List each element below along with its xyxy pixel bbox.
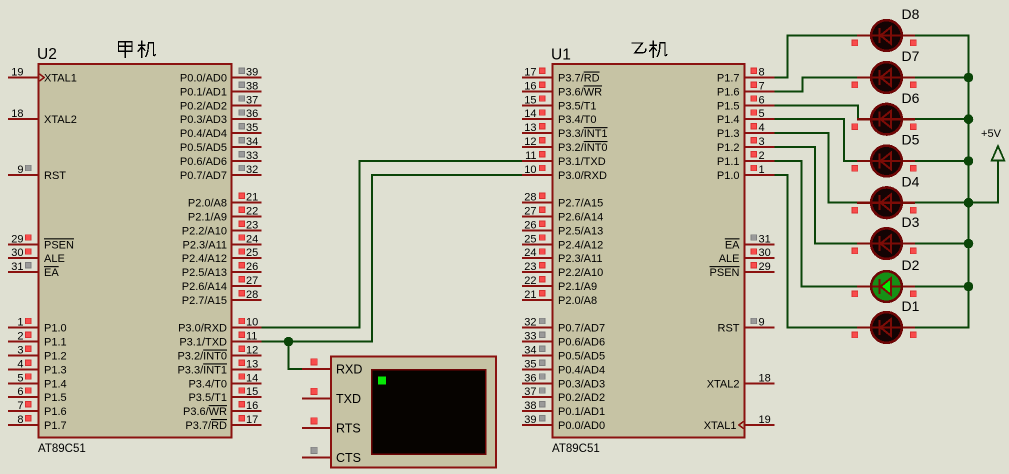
pin 11 (P3.1/TXD) of U1, left side: [522, 150, 606, 168]
svg-text:P0.2/AD2: P0.2/AD2: [558, 392, 605, 404]
svg-text:D4: D4: [902, 173, 920, 189]
wire U2.P3.1/TXD to U1.P3.0/RXD: [262, 175, 523, 342]
svg-text:P2.5/A13: P2.5/A13: [182, 267, 227, 279]
svg-text:P3.6/WR: P3.6/WR: [183, 406, 227, 418]
svg-text:P3.4/T0: P3.4/T0: [558, 114, 597, 126]
svg-text:27: 27: [524, 206, 536, 218]
pin 9 (RST) of U1, right side: [718, 317, 775, 335]
pin 24 (P2.3/A11) of U1, left side: [522, 247, 602, 265]
pin 15 (P3.5/T1) of U2, right side: [188, 386, 261, 404]
LED D2: [852, 271, 916, 302]
svg-text:P0.4/AD4: P0.4/AD4: [558, 364, 605, 376]
svg-text:14: 14: [524, 108, 536, 120]
IC U1 body (AT89C51 乙机): [553, 64, 745, 438]
pin 37 (P0.2/AD2) of U1, left side: [522, 386, 605, 404]
svg-text:9: 9: [17, 164, 23, 176]
svg-text:32: 32: [246, 164, 258, 176]
svg-text:13: 13: [246, 358, 258, 370]
terminal pin RTS: [302, 418, 361, 436]
chip U2 title 甲机: [119, 41, 156, 57]
pin 26 (P2.5/A13) of U2, right side: [182, 261, 262, 279]
pin 22 (P2.1/A9) of U2, right side: [188, 206, 262, 224]
svg-text:P2.5/A13: P2.5/A13: [558, 225, 603, 237]
pin 18 (XTAL2) of U2, left side: [8, 108, 77, 126]
svg-text:39: 39: [524, 414, 536, 426]
pin 10 (P3.0/RXD) of U2, right side: [178, 317, 261, 335]
pin 1 (P1.0) of U2, left side: [8, 317, 67, 335]
pin 25 (P2.4/A12) of U1, left side: [522, 233, 603, 251]
svg-text:D5: D5: [902, 132, 920, 148]
pin 8 (P1.7) of U2, left side: [8, 414, 67, 432]
svg-text:18: 18: [759, 372, 771, 384]
svg-text:P1.1: P1.1: [717, 156, 740, 168]
terminal pin CTS: [302, 447, 361, 465]
pin 5 (P1.4) of U1, right side: [717, 108, 775, 126]
pin 36 (P0.3/AD3) of U2, right side: [180, 108, 262, 126]
svg-text:P2.4/A12: P2.4/A12: [182, 253, 227, 265]
LED D6: [852, 104, 916, 135]
pin 37 (P0.2/AD2) of U2, right side: [180, 94, 262, 112]
svg-text:P3.5/T1: P3.5/T1: [188, 392, 227, 404]
svg-text:P0.5/AD5: P0.5/AD5: [180, 142, 227, 154]
svg-text:24: 24: [524, 247, 536, 259]
svg-text:P2.7/A15: P2.7/A15: [182, 295, 227, 307]
pin 11 (P3.1/TXD) of U2, right side: [179, 331, 261, 349]
svg-text:35: 35: [524, 358, 536, 370]
svg-text:P2.6/A14: P2.6/A14: [558, 212, 603, 224]
junction node on bus at D3: [964, 239, 974, 249]
svg-text:30: 30: [11, 247, 23, 259]
svg-text:10: 10: [246, 317, 258, 329]
svg-text:P2.6/A14: P2.6/A14: [182, 281, 227, 293]
svg-text:D2: D2: [902, 257, 920, 273]
svg-text:P0.5/AD5: P0.5/AD5: [558, 351, 605, 363]
svg-text:P3.5/T1: P3.5/T1: [558, 100, 597, 112]
wire U1.P1.2 to LED D3: [775, 147, 859, 244]
LED D8: [852, 20, 916, 51]
junction node on bus at D4: [964, 198, 974, 208]
wire U1.P1.4 to LED D5: [775, 119, 859, 161]
svg-text:29: 29: [759, 261, 771, 273]
svg-text:P2.7/A15: P2.7/A15: [558, 198, 603, 210]
svg-text:P0.4/AD4: P0.4/AD4: [180, 128, 227, 140]
pin 32 (P0.7/AD7) of U1, left side: [522, 317, 605, 335]
svg-text:34: 34: [524, 345, 536, 357]
svg-text:P3.1/TXD: P3.1/TXD: [179, 337, 227, 349]
wire LED D3 cathode to bus: [914, 243, 969, 245]
pin 18 (XTAL2) of U1, right side: [707, 372, 775, 390]
svg-text:P1.2: P1.2: [44, 351, 67, 363]
svg-text:13: 13: [524, 122, 536, 134]
pin 23 (P2.2/A10) of U1, left side: [522, 261, 603, 279]
svg-text:PSEN: PSEN: [710, 267, 740, 279]
IC U2 body (AT89C51 甲机): [39, 64, 232, 438]
wire LED D6 cathode to bus: [914, 118, 969, 120]
svg-text:4: 4: [17, 358, 23, 370]
svg-text:28: 28: [246, 289, 258, 301]
pin 6 (P1.5) of U1, right side: [717, 94, 775, 112]
svg-text:RST: RST: [44, 170, 66, 182]
svg-text:P1.4: P1.4: [717, 114, 740, 126]
svg-text:29: 29: [11, 233, 23, 245]
svg-text:2: 2: [17, 331, 23, 343]
svg-text:8: 8: [17, 414, 23, 426]
svg-text:P3.0/RXD: P3.0/RXD: [558, 170, 607, 182]
svg-text:U1: U1: [551, 47, 571, 64]
pin 24 (P2.3/A11) of U2, right side: [183, 233, 262, 251]
pin 7 (P1.6) of U2, left side: [8, 400, 67, 418]
svg-text:P3.7/RD: P3.7/RD: [558, 73, 600, 85]
svg-text:D1: D1: [902, 298, 920, 314]
wire branch to terminal RXD: [289, 342, 303, 369]
pin 31 (EA) of U1, right side: [725, 233, 775, 251]
svg-text:25: 25: [246, 247, 258, 259]
svg-text:D3: D3: [902, 214, 920, 230]
wire +5V supply bus (LED cathodes): [914, 36, 969, 328]
pin 22 (P2.1/A9) of U1, left side: [522, 275, 597, 293]
pin 14 (P3.4/T0) of U2, right side: [188, 372, 261, 390]
pin 4 (P1.3) of U2, left side: [8, 358, 67, 376]
LED D1: [852, 312, 916, 343]
svg-text:P0.0/AD0: P0.0/AD0: [180, 73, 227, 85]
svg-text:P0.6/AD6: P0.6/AD6: [180, 156, 227, 168]
svg-text:P2.1/A9: P2.1/A9: [188, 212, 227, 224]
wire +5V branch: [969, 162, 999, 203]
svg-text:3: 3: [759, 136, 765, 148]
pin 6 (P1.5) of U2, left side: [8, 386, 67, 404]
svg-text:17: 17: [524, 67, 536, 79]
svg-text:P1.3: P1.3: [717, 128, 740, 140]
svg-text:XTAL1: XTAL1: [704, 420, 737, 432]
svg-text:15: 15: [524, 94, 536, 106]
LED D3: [852, 228, 916, 259]
svg-text:5: 5: [759, 108, 765, 120]
pin 8 (P1.7) of U1, right side: [717, 67, 775, 85]
svg-text:31: 31: [759, 233, 771, 245]
svg-text:P0.0/AD0: P0.0/AD0: [558, 420, 605, 432]
wire U1.P1.7 to LED D8: [775, 36, 859, 78]
pin 2 (P1.1) of U1, right side: [717, 150, 775, 168]
pin 14 (P3.4/T0) of U1, left side: [522, 108, 597, 126]
pin 4 (P1.3) of U1, right side: [717, 122, 775, 140]
svg-text:P1.6: P1.6: [44, 406, 67, 418]
pin 16 (P3.6/WR) of U1, left side: [522, 80, 602, 98]
LED D7: [852, 62, 916, 93]
svg-text:CTS: CTS: [336, 451, 361, 465]
svg-text:RXD: RXD: [336, 363, 362, 377]
LED D5: [852, 146, 916, 177]
svg-text:16: 16: [524, 80, 536, 92]
pin 38 (P0.1/AD1) of U2, right side: [180, 80, 262, 98]
svg-text:P0.3/AD3: P0.3/AD3: [558, 378, 605, 390]
pin 1 (P1.0) of U1, right side: [717, 164, 775, 182]
pin 2 (P1.1) of U2, left side: [8, 331, 67, 349]
svg-text:EA: EA: [725, 239, 740, 251]
pin 15 (P3.5/T1) of U1, left side: [522, 94, 597, 112]
svg-text:30: 30: [759, 247, 771, 259]
junction node on bus at D5: [964, 156, 974, 166]
virtual terminal cursor: [378, 377, 386, 385]
svg-text:P1.0: P1.0: [717, 170, 740, 182]
svg-text:P3.4/T0: P3.4/T0: [188, 378, 227, 390]
wire LED D7 cathode to bus: [914, 77, 969, 79]
svg-text:6: 6: [759, 94, 765, 106]
svg-text:AT89C51: AT89C51: [552, 443, 600, 455]
svg-text:P3.3/INT1: P3.3/INT1: [558, 128, 608, 140]
svg-text:33: 33: [524, 331, 536, 343]
wire U1.P1.5 to LED D6: [775, 105, 859, 119]
svg-text:P3.2/INT0: P3.2/INT0: [558, 142, 608, 154]
svg-text:P2.1/A9: P2.1/A9: [558, 281, 597, 293]
svg-text:P1.5: P1.5: [44, 392, 67, 404]
svg-text:P3.1/TXD: P3.1/TXD: [558, 156, 606, 168]
svg-text:P1.7: P1.7: [44, 420, 67, 432]
svg-text:15: 15: [246, 386, 258, 398]
svg-text:31: 31: [11, 261, 23, 273]
pin 30 (ALE) of U1, right side: [719, 247, 775, 265]
svg-text:+5V: +5V: [981, 128, 1002, 140]
pin 12 (P3.2/INT0) of U2, right side: [177, 345, 261, 363]
pin 17 (P3.7/RD) of U2, right side: [185, 414, 261, 432]
svg-text:11: 11: [525, 150, 536, 162]
pin 19 (XTAL1) of U2, left side: [8, 67, 77, 85]
svg-text:P0.7/AD7: P0.7/AD7: [558, 323, 605, 335]
svg-text:P1.4: P1.4: [44, 378, 67, 390]
virtual terminal body: [331, 357, 496, 468]
svg-text:P1.3: P1.3: [44, 364, 67, 376]
svg-text:P2.3/A11: P2.3/A11: [558, 253, 602, 265]
svg-text:D8: D8: [902, 6, 920, 22]
svg-text:1: 1: [759, 164, 765, 176]
svg-text:RTS: RTS: [336, 422, 361, 436]
pin 13 (P3.3/INT1) of U1, left side: [522, 122, 608, 140]
svg-text:XTAL2: XTAL2: [44, 114, 77, 126]
svg-text:5: 5: [17, 372, 23, 384]
pin 35 (P0.4/AD4) of U1, left side: [522, 358, 605, 376]
pin 32 (P0.7/AD7) of U2, right side: [180, 164, 262, 182]
svg-text:2: 2: [759, 150, 765, 162]
pin 30 (ALE) of U2, left side: [8, 247, 65, 265]
pin 21 (P2.0/A8) of U2, right side: [188, 192, 262, 210]
svg-text:D6: D6: [902, 90, 920, 106]
svg-text:4: 4: [759, 122, 765, 134]
svg-text:27: 27: [246, 275, 258, 287]
svg-text:P0.1/AD1: P0.1/AD1: [180, 86, 227, 98]
svg-text:16: 16: [246, 400, 258, 412]
pin 35 (P0.4/AD4) of U2, right side: [180, 122, 262, 140]
pin 39 (P0.0/AD0) of U1, left side: [522, 414, 605, 432]
pin 38 (P0.1/AD1) of U1, left side: [522, 400, 605, 418]
junction node on bus at D6: [964, 114, 974, 124]
svg-text:10: 10: [524, 164, 536, 176]
pin 17 (P3.7/RD) of U1, left side: [522, 67, 600, 85]
svg-text:26: 26: [246, 261, 258, 273]
svg-text:P1.0: P1.0: [44, 323, 67, 335]
pin 31 (EA) of U2, left side: [8, 261, 59, 279]
svg-text:EA: EA: [44, 267, 59, 279]
svg-text:34: 34: [246, 136, 258, 148]
svg-text:P3.2/INT0: P3.2/INT0: [177, 351, 227, 363]
pin 19 (XTAL1) of U1, right side: [704, 414, 775, 432]
svg-text:26: 26: [524, 219, 536, 231]
pin 21 (P2.0/A8) of U1, left side: [522, 289, 597, 307]
pin 26 (P2.5/A13) of U1, left side: [522, 219, 603, 237]
svg-text:21: 21: [246, 192, 258, 204]
pin 3 (P1.2) of U2, left side: [8, 345, 67, 363]
pin 39 (P0.0/AD0) of U2, right side: [180, 67, 262, 85]
svg-text:AT89C51: AT89C51: [38, 443, 86, 455]
wire U1.P1.1 to LED D2: [775, 161, 859, 287]
svg-text:P2.2/A10: P2.2/A10: [182, 225, 227, 237]
pin 25 (P2.4/A12) of U2, right side: [182, 247, 262, 265]
svg-text:PSEN: PSEN: [44, 239, 74, 251]
svg-text:P0.3/AD3: P0.3/AD3: [180, 114, 227, 126]
svg-text:P1.7: P1.7: [717, 73, 740, 85]
svg-text:XTAL1: XTAL1: [44, 73, 77, 85]
pin 9 (RST) of U2, left side: [8, 164, 66, 182]
svg-text:D7: D7: [902, 48, 920, 64]
pin 23 (P2.2/A10) of U2, right side: [182, 219, 262, 237]
svg-text:P3.3/INT1: P3.3/INT1: [177, 364, 227, 376]
svg-text:9: 9: [759, 317, 765, 329]
pin 3 (P1.2) of U1, right side: [717, 136, 775, 154]
pin 13 (P3.3/INT1) of U2, right side: [177, 358, 261, 376]
pin 36 (P0.3/AD3) of U1, left side: [522, 372, 605, 390]
svg-text:P2.0/A8: P2.0/A8: [558, 295, 597, 307]
pin 27 (P2.6/A14) of U2, right side: [182, 275, 262, 293]
svg-text:8: 8: [759, 67, 765, 79]
svg-text:P1.5: P1.5: [717, 100, 740, 112]
junction node on bus at D7: [964, 73, 974, 83]
LED D4: [852, 187, 916, 218]
svg-text:P1.2: P1.2: [717, 142, 740, 154]
svg-text:19: 19: [759, 414, 771, 426]
terminal pin RXD: [302, 359, 362, 377]
svg-text:21: 21: [524, 289, 536, 301]
pin 33 (P0.6/AD6) of U2, right side: [180, 150, 262, 168]
svg-text:P0.7/AD7: P0.7/AD7: [180, 170, 227, 182]
svg-text:17: 17: [246, 414, 258, 426]
svg-text:12: 12: [246, 345, 258, 357]
svg-text:TXD: TXD: [336, 392, 361, 406]
wire LED D2 cathode to bus: [914, 286, 969, 288]
svg-text:P1.1: P1.1: [44, 337, 67, 349]
svg-text:37: 37: [246, 94, 258, 106]
pin 7 (P1.6) of U1, right side: [717, 80, 775, 98]
svg-text:32: 32: [524, 317, 536, 329]
chip U1 title 乙机: [632, 41, 667, 57]
svg-text:3: 3: [17, 345, 23, 357]
pin 10 (P3.0/RXD) of U1, left side: [522, 164, 607, 182]
svg-text:P3.0/RXD: P3.0/RXD: [178, 323, 227, 335]
svg-text:28: 28: [524, 192, 536, 204]
svg-text:XTAL2: XTAL2: [707, 378, 740, 390]
svg-text:6: 6: [17, 386, 23, 398]
svg-text:35: 35: [246, 122, 258, 134]
wire LED D5 cathode to bus: [914, 160, 969, 162]
pin 5 (P1.4) of U2, left side: [8, 372, 67, 390]
svg-text:33: 33: [246, 150, 258, 162]
virtual terminal screen: [372, 370, 486, 455]
svg-text:37: 37: [524, 386, 536, 398]
pin 12 (P3.2/INT0) of U1, left side: [522, 136, 608, 154]
wire U1.P1.3 to LED D4: [775, 133, 859, 203]
svg-text:38: 38: [524, 400, 536, 412]
svg-text:P2.3/A11: P2.3/A11: [183, 239, 227, 251]
wire U1.P1.0 to LED D1: [775, 175, 859, 328]
junction node on bus at D2: [964, 282, 974, 292]
svg-text:P2.2/A10: P2.2/A10: [558, 267, 603, 279]
svg-text:12: 12: [524, 136, 536, 148]
svg-text:ALE: ALE: [719, 253, 740, 265]
svg-text:22: 22: [246, 206, 258, 218]
svg-text:23: 23: [524, 261, 536, 273]
svg-text:P2.0/A8: P2.0/A8: [188, 198, 227, 210]
svg-text:38: 38: [246, 80, 258, 92]
terminal pin TXD: [302, 388, 361, 406]
pin 16 (P3.6/WR) of U2, right side: [183, 400, 262, 418]
svg-text:25: 25: [524, 233, 536, 245]
pin 34 (P0.5/AD5) of U2, right side: [180, 136, 262, 154]
svg-text:18: 18: [11, 108, 23, 120]
power terminal +5V arrow: [992, 146, 1005, 161]
pin 28 (P2.7/A15) of U2, right side: [182, 289, 262, 307]
svg-text:ALE: ALE: [44, 253, 65, 265]
svg-text:23: 23: [246, 219, 258, 231]
svg-text:U2: U2: [37, 46, 57, 63]
svg-text:36: 36: [246, 108, 258, 120]
wire U2.P3.0/RXD to U1.P3.1/TXD: [262, 161, 523, 328]
svg-text:24: 24: [246, 233, 258, 245]
svg-text:14: 14: [246, 372, 258, 384]
svg-text:1: 1: [17, 317, 23, 329]
svg-text:36: 36: [524, 372, 536, 384]
pin 28 (P2.7/A15) of U1, left side: [522, 192, 603, 210]
svg-text:P0.2/AD2: P0.2/AD2: [180, 100, 227, 112]
svg-text:39: 39: [246, 67, 258, 79]
svg-text:P3.7/RD: P3.7/RD: [185, 420, 227, 432]
pin 27 (P2.6/A14) of U1, left side: [522, 206, 603, 224]
svg-text:11: 11: [246, 331, 257, 343]
svg-text:P1.6: P1.6: [717, 86, 740, 98]
svg-text:7: 7: [17, 400, 23, 412]
svg-text:P0.1/AD1: P0.1/AD1: [558, 406, 605, 418]
svg-text:P3.6/WR: P3.6/WR: [558, 86, 602, 98]
svg-text:19: 19: [11, 67, 23, 79]
pin 29 (PSEN) of U2, left side: [8, 233, 74, 251]
junction node at TXD branch: [284, 337, 294, 347]
svg-text:RST: RST: [718, 323, 740, 335]
pin 34 (P0.5/AD5) of U1, left side: [522, 345, 605, 363]
svg-text:P0.6/AD6: P0.6/AD6: [558, 337, 605, 349]
pin 33 (P0.6/AD6) of U1, left side: [522, 331, 605, 349]
wire LED D4 cathode to bus: [914, 202, 969, 204]
svg-text:P2.4/A12: P2.4/A12: [558, 239, 603, 251]
svg-text:7: 7: [759, 80, 765, 92]
pin 29 (PSEN) of U1, right side: [710, 261, 775, 279]
svg-text:22: 22: [524, 275, 536, 287]
wire U1.P1.6 to LED D7: [775, 78, 859, 92]
